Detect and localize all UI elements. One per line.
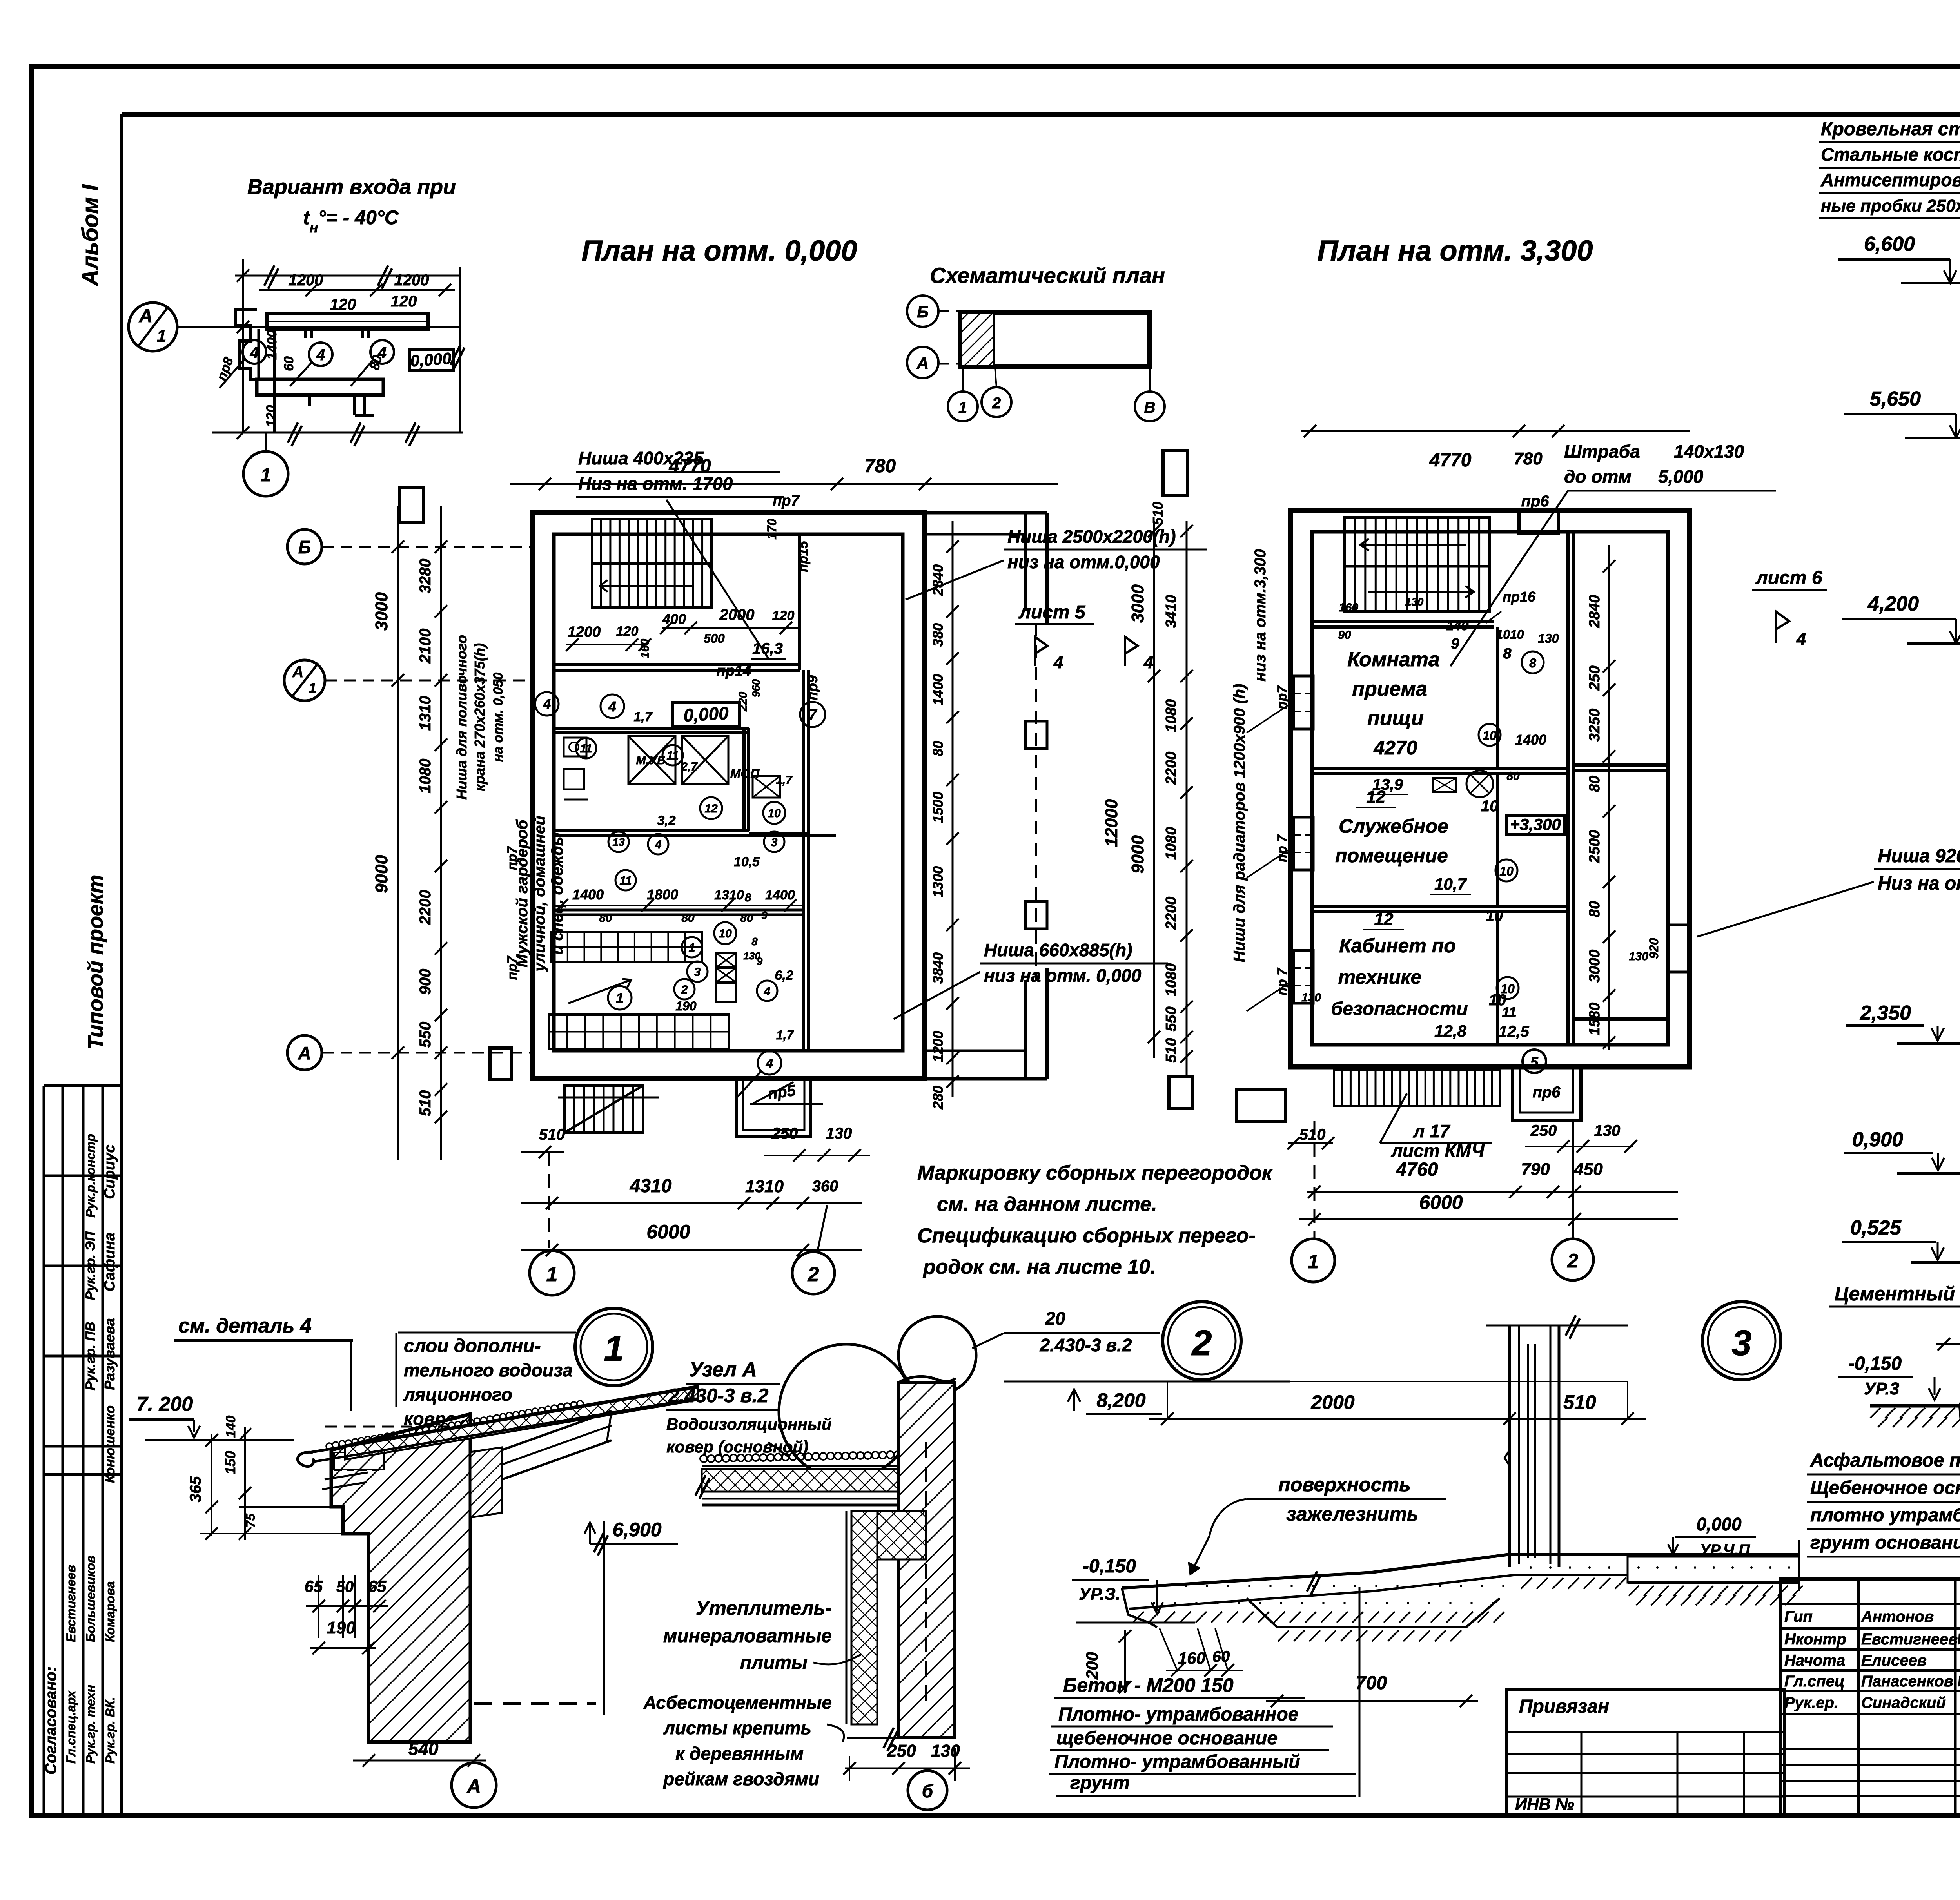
left plan bottom pier rect — [490, 1048, 512, 1079]
svg-text:5: 5 — [1530, 1054, 1539, 1070]
right plan bottom stair — [1334, 1070, 1500, 1106]
svg-text:220: 220 — [737, 692, 750, 712]
svg-text:4,200: 4,200 — [1867, 593, 1919, 615]
entry vestibule verticals — [258, 329, 260, 379]
svg-text:8: 8 — [1503, 645, 1512, 662]
left plan extension pilasters — [1025, 721, 1047, 749]
entry grid circle 1 — [265, 433, 267, 451]
svg-text:Типовой проект: Типовой проект — [84, 875, 107, 1050]
svg-text:2840: 2840 — [1586, 595, 1603, 629]
svg-text:Водоизоляционный: Водоизоляционный — [666, 1415, 831, 1433]
svg-text:10,7: 10,7 — [1434, 875, 1467, 893]
svg-text:пр7: пр7 — [505, 846, 520, 870]
svg-text:Плотно- утрамбованный: Плотно- утрамбованный — [1054, 1751, 1300, 1772]
svg-text:80: 80 — [1586, 901, 1603, 917]
svg-text:Спецификацию сборных перего-: Спецификацию сборных перего- — [917, 1224, 1256, 1247]
detail 1 dashed line right — [474, 1702, 596, 1705]
svg-text:250: 250 — [771, 1125, 798, 1142]
entry panel circle 4c — [370, 340, 394, 364]
svg-text:А: А — [139, 306, 153, 326]
entry lower wall — [257, 379, 383, 395]
svg-text:крана 270х260х375(h): крана 270х260х375(h) — [472, 643, 488, 791]
schematic circle 1 — [962, 367, 964, 392]
left plan entry stair bottom — [564, 1086, 643, 1133]
svg-text:Антисептированные деревян-: Антисептированные деревян- — [1820, 170, 1960, 190]
svg-text:А: А — [916, 354, 929, 372]
svg-text:к деревянным: к деревянным — [675, 1743, 804, 1764]
svg-text:см. на данном листе.: см. на данном листе. — [937, 1193, 1157, 1216]
svg-text:130: 130 — [826, 1125, 852, 1142]
svg-text:1: 1 — [157, 326, 166, 346]
svg-text:Нконтр: Нконтр — [1784, 1631, 1846, 1648]
svg-text:4: 4 — [766, 1056, 773, 1071]
svg-text:технике: технике — [1338, 966, 1422, 988]
svg-text:140: 140 — [1446, 618, 1469, 633]
left plan right dim chain rotated — [952, 521, 954, 1097]
svg-text:0,000: 0,000 — [683, 703, 729, 725]
detail 1 dim 540 — [353, 1760, 486, 1762]
svg-text:1: 1 — [604, 1329, 624, 1369]
detail 1 cornice dashed box — [334, 1452, 384, 1470]
svg-text:приема: приема — [1352, 678, 1427, 700]
svg-text:250: 250 — [1586, 665, 1603, 691]
left plan top dim 4770 780 — [510, 483, 1058, 485]
detail 1 left dims 365 150 140 — [211, 1434, 212, 1536]
svg-text:9000: 9000 — [372, 855, 391, 893]
svg-text:10: 10 — [1481, 798, 1499, 815]
svg-text:1: 1 — [309, 680, 316, 696]
grid line А/1 entry — [177, 326, 460, 328]
svg-text:уличной, домашней: уличной, домашней — [531, 816, 548, 972]
svg-text:Сафина: Сафина — [102, 1233, 118, 1291]
detail 1 asb layer under roof — [325, 1472, 368, 1479]
right plan bottom pier rects — [1169, 1076, 1192, 1108]
svg-text:1310: 1310 — [745, 1177, 784, 1196]
left plan left dim chain outer — [397, 506, 399, 1160]
svg-text:1,7: 1,7 — [776, 774, 793, 787]
detail 3 canopy post — [1508, 1325, 1511, 1567]
svg-text:+3,300: +3,300 — [1510, 815, 1561, 834]
detail 3 floor right — [1628, 1553, 1799, 1556]
svg-text:2: 2 — [808, 1263, 819, 1286]
svg-text:Альбом I: Альбом I — [78, 184, 103, 287]
svg-text:План на отм. 0,000: План на отм. 0,000 — [581, 234, 857, 267]
svg-text:Ниша 2500х2200(h): Ниша 2500х2200(h) — [1007, 526, 1176, 547]
svg-text:1080: 1080 — [417, 759, 434, 794]
svg-text:1400: 1400 — [572, 887, 604, 903]
svg-text:130: 130 — [1405, 596, 1424, 608]
svg-text:1580: 1580 — [1586, 1003, 1603, 1036]
svg-text:Б: Б — [298, 537, 311, 557]
svg-text:65: 65 — [368, 1577, 387, 1595]
svg-text:Щебеночное основание: Щебеночное основание — [1810, 1478, 1960, 1498]
svg-text:120: 120 — [391, 293, 417, 310]
svg-text:150: 150 — [222, 1451, 238, 1474]
svg-text:3840: 3840 — [930, 952, 946, 984]
svg-text:3: 3 — [694, 966, 701, 979]
svg-text:А: А — [292, 664, 304, 681]
svg-text:7. 200: 7. 200 — [136, 1393, 193, 1416]
right plan radiator niche 2 — [1294, 817, 1313, 870]
left plan bench band 1 — [551, 932, 702, 962]
svg-text:2: 2 — [681, 983, 688, 996]
svg-text:Рук.ер.: Рук.ер. — [1784, 1694, 1838, 1711]
svg-text:родок см. на листе 10.: родок см. на листе 10. — [922, 1256, 1156, 1278]
left plan wardrobe arrow — [568, 980, 631, 1003]
detail 1 wall with hatch — [331, 1414, 470, 1742]
svg-text:Гл.спец.арх: Гл.спец.арх — [64, 1690, 78, 1764]
svg-text:-0,150: -0,150 — [1848, 1353, 1902, 1374]
svg-text:10: 10 — [1486, 907, 1503, 925]
svg-text:130: 130 — [1629, 950, 1648, 963]
entry wall step profile — [235, 310, 257, 379]
svg-text:75: 75 — [243, 1513, 258, 1528]
svg-text:Стальные костыли через 780: Стальные костыли через 780 — [1821, 144, 1960, 165]
svg-text:90: 90 — [1338, 629, 1351, 642]
right plan grid circle 2 bottom — [1572, 1121, 1574, 1239]
svg-text:3000: 3000 — [1128, 584, 1147, 623]
svg-text:Цементный раствор: Цементный раствор — [1835, 1283, 1960, 1305]
svg-text:Привязан: Привязан — [1519, 1696, 1609, 1717]
svg-text:Ниши для радиаторов 1200х900 (: Ниши для радиаторов 1200х900 (h) — [1231, 684, 1248, 963]
schematic hatched bay — [961, 313, 994, 366]
svg-text:6,900: 6,900 — [612, 1519, 661, 1541]
entry bottom boundary — [212, 432, 463, 434]
svg-text:140х130: 140х130 — [1674, 441, 1744, 462]
svg-text:2500: 2500 — [1586, 830, 1603, 864]
svg-text:2: 2 — [1191, 1323, 1212, 1363]
svg-text:4: 4 — [1143, 653, 1153, 672]
svg-text:2840: 2840 — [930, 564, 946, 596]
svg-text:Кровельная сталь: Кровельная сталь — [1821, 119, 1960, 140]
detail 3 top line — [1167, 1381, 1628, 1382]
svg-text:МОП: МОП — [730, 767, 760, 781]
svg-text:960: 960 — [750, 679, 762, 697]
svg-text:низ на отм.3,300: низ на отм.3,300 — [1252, 549, 1269, 682]
svg-text:Рук.гр. ПВ: Рук.гр. ПВ — [83, 1322, 98, 1390]
svg-text:1200: 1200 — [930, 1031, 946, 1062]
svg-text:1080: 1080 — [1163, 963, 1180, 997]
svg-text:Б: Б — [917, 303, 929, 321]
svg-text:2.430-3 в.2: 2.430-3 в.2 — [1040, 1335, 1132, 1355]
svg-text:пр7: пр7 — [773, 493, 800, 509]
svg-text:2: 2 — [1567, 1250, 1578, 1272]
svg-text:ные пробки 250х120х65 через 78: ные пробки 250х120х65 через 780 — [1821, 196, 1960, 216]
svg-text:7: 7 — [808, 707, 817, 723]
svg-text:1080: 1080 — [1163, 827, 1180, 860]
svg-text:2: 2 — [992, 395, 1001, 412]
svg-text:4: 4 — [250, 344, 259, 361]
svg-text:280: 280 — [930, 1086, 946, 1110]
entry canopy top dim line — [235, 275, 460, 277]
svg-text:1: 1 — [958, 399, 967, 416]
svg-text:пр7: пр7 — [505, 955, 520, 980]
right plan grid circle 1 bottom — [1314, 1121, 1316, 1239]
svg-text:10: 10 — [1501, 982, 1515, 996]
svg-text:Низ на отм. 3,300: Низ на отм. 3,300 — [1878, 873, 1960, 894]
detail 3 dim 2000 510 — [1149, 1418, 1646, 1420]
right plan top dim 4770 780 — [1301, 430, 1690, 432]
svg-text:1400: 1400 — [265, 330, 279, 360]
svg-text:50: 50 — [336, 1578, 354, 1595]
svg-text:Комарова: Комарова — [103, 1581, 117, 1642]
detail 1 ceiling panel right of wall — [470, 1447, 502, 1517]
svg-text:слои дополни-: слои дополни- — [404, 1336, 541, 1356]
svg-text:0,900: 0,900 — [1852, 1128, 1903, 1151]
grid circle А/1 (entry variant) — [129, 303, 177, 351]
svg-text:1080: 1080 — [1163, 699, 1180, 732]
schematic grid circle А — [907, 347, 938, 378]
svg-text:см. деталь 4: см. деталь 4 — [178, 1314, 312, 1337]
svg-text:0,000: 0,000 — [410, 349, 452, 370]
inner frame left line — [120, 114, 123, 1815]
svg-text:Разуваева: Разуваева — [102, 1318, 118, 1390]
svg-text:Синадский: Синадский — [1861, 1694, 1946, 1711]
svg-text:0,000: 0,000 — [1696, 1514, 1742, 1534]
svg-text:12,8: 12,8 — [1434, 1022, 1466, 1040]
entry left vertical dim — [242, 259, 244, 433]
svg-text:1200: 1200 — [568, 624, 601, 640]
schematic plan rectangle — [960, 312, 1150, 367]
svg-text:4: 4 — [764, 985, 771, 998]
entry elevation box 0,000 — [410, 350, 454, 371]
left plan grid circle А — [287, 1035, 322, 1070]
svg-text:160: 160 — [639, 639, 652, 658]
svg-text:Рук.гр. ВК.: Рук.гр. ВК. — [103, 1697, 117, 1764]
svg-text:10: 10 — [1499, 864, 1514, 878]
left plan grid circle А/1 — [284, 660, 325, 701]
svg-text:60: 60 — [281, 356, 296, 371]
svg-text:9: 9 — [761, 909, 768, 921]
svg-text:9000: 9000 — [1128, 835, 1147, 874]
left plan interior dim row — [555, 905, 804, 906]
svg-text:360: 360 — [812, 1178, 838, 1195]
svg-text:Утеплитель-: Утеплитель- — [696, 1597, 832, 1619]
svg-text:12: 12 — [1374, 910, 1394, 929]
svg-text:130: 130 — [743, 950, 760, 962]
svg-text:3250: 3250 — [1586, 709, 1603, 742]
right plan corridor partition — [1566, 532, 1570, 1045]
signature table rows — [1780, 1603, 1960, 1605]
svg-text:13,9: 13,9 — [1372, 776, 1403, 793]
left plan top stair — [592, 519, 711, 607]
right plan circles — [1522, 651, 1544, 673]
svg-text:3000: 3000 — [372, 592, 391, 631]
right plan radiator niche 1 — [1294, 676, 1313, 729]
detail 2 elevation 8,200 — [1004, 1381, 1290, 1383]
detail 2 circle б — [908, 1771, 947, 1810]
left plan corridor vertical partition — [802, 670, 805, 1051]
detail 3 big circle 2 — [1163, 1302, 1241, 1380]
svg-text:1: 1 — [616, 990, 624, 1006]
svg-text:10: 10 — [719, 927, 732, 940]
svg-text:1400: 1400 — [1515, 732, 1546, 748]
left plan bottom dims row2 — [521, 1202, 862, 1204]
svg-text:510: 510 — [1163, 1038, 1180, 1062]
right plan left dim chain outer — [1153, 521, 1155, 1058]
left plan lower partition — [749, 832, 808, 835]
svg-text:Гл.спец: Гл.спец — [1784, 1673, 1845, 1690]
right plan partition 2 — [1312, 905, 1568, 908]
left plan room circles — [535, 692, 559, 716]
svg-text:3,2: 3,2 — [657, 813, 675, 828]
svg-text:1300: 1300 — [930, 866, 946, 897]
svg-text:ляционного: ляционного — [403, 1384, 512, 1405]
svg-text:8: 8 — [745, 891, 751, 904]
svg-text:1200: 1200 — [289, 272, 323, 289]
svg-text:1800: 1800 — [647, 887, 678, 903]
svg-text:130: 130 — [1594, 1122, 1621, 1139]
svg-text:безопасности: безопасности — [1331, 999, 1468, 1019]
detail 2 big blowup circle 2 — [898, 1316, 976, 1394]
svg-text:550: 550 — [1163, 1006, 1180, 1031]
svg-text:10: 10 — [768, 807, 781, 820]
svg-text:низ на отм. 0,000: низ на отм. 0,000 — [984, 965, 1142, 986]
svg-text:Узел А: Узел А — [689, 1358, 757, 1381]
detail 2 bottom edge — [847, 1737, 955, 1739]
svg-text:4770: 4770 — [1429, 450, 1472, 471]
svg-text:450: 450 — [1573, 1160, 1603, 1179]
svg-text:грунт основания: грунт основания — [1810, 1532, 1960, 1553]
svg-text:11: 11 — [666, 749, 679, 762]
svg-text:Рук.гр. техн: Рук.гр. техн — [83, 1685, 98, 1764]
svg-text:540: 540 — [408, 1739, 439, 1759]
svg-text:10: 10 — [1483, 729, 1497, 743]
right plan radiator niche 3 — [1294, 950, 1313, 1003]
svg-text:6000: 6000 — [1419, 1191, 1463, 1213]
svg-text:190: 190 — [327, 1618, 356, 1637]
right plan corridor rotated dims — [1608, 545, 1610, 1050]
svg-text:пр9: пр9 — [804, 675, 820, 700]
svg-text:120: 120 — [264, 405, 279, 428]
svg-text:2,7: 2,7 — [681, 760, 698, 773]
svg-text:4: 4 — [608, 698, 616, 714]
svg-text:4: 4 — [655, 838, 662, 851]
detail 1 big circle — [575, 1308, 653, 1386]
detail 3 left wedge — [1122, 1588, 1157, 1627]
svg-text:пищи: пищи — [1367, 707, 1424, 730]
svg-text:510: 510 — [417, 1090, 434, 1117]
svg-text:160: 160 — [1339, 601, 1358, 614]
svg-text:Елисеев: Елисеев — [1861, 1652, 1927, 1669]
svg-text:250: 250 — [1530, 1122, 1557, 1139]
svg-text:плотно утрамбованный: плотно утрамбованный — [1810, 1505, 1960, 1526]
svg-text:3: 3 — [1731, 1323, 1751, 1363]
svg-text:900: 900 — [417, 969, 434, 995]
left plan wc fixtures — [564, 738, 586, 756]
svg-text:на отм. 0,050: на отм. 0,050 — [491, 673, 506, 762]
svg-text:Схематический план: Схематический план — [930, 263, 1165, 288]
svg-text:4270: 4270 — [1373, 737, 1417, 759]
svg-text:3: 3 — [771, 836, 778, 849]
svg-text:1200: 1200 — [394, 272, 429, 289]
svg-text:510: 510 — [1563, 1391, 1596, 1413]
svg-text:2200: 2200 — [1163, 752, 1180, 785]
svg-text:13: 13 — [612, 836, 625, 848]
detail 1 callout слои дополнительного — [398, 1332, 576, 1334]
svg-text:Начота: Начота — [1784, 1652, 1845, 1669]
svg-text:низ на отм.0,000: низ на отм.0,000 — [1007, 552, 1160, 572]
svg-text:Асбестоцементные: Асбестоцементные — [643, 1692, 832, 1713]
svg-text:А: А — [298, 1043, 311, 1063]
svg-text:65: 65 — [305, 1577, 323, 1595]
svg-text:1310: 1310 — [714, 888, 744, 903]
svg-text:6,2: 6,2 — [775, 968, 793, 983]
svg-text:Кабинет по: Кабинет по — [1339, 935, 1456, 957]
svg-text:б: б — [922, 1781, 934, 1801]
svg-text:510: 510 — [539, 1126, 565, 1143]
svg-text:Ниша 400х235: Ниша 400х235 — [578, 448, 704, 468]
svg-text:лист 6: лист 6 — [1755, 567, 1822, 588]
svg-text:УР.З.: УР.З. — [1079, 1585, 1120, 1604]
svg-text:500: 500 — [704, 631, 725, 645]
svg-text:6000: 6000 — [646, 1221, 690, 1243]
detail 2 roof gravel — [700, 1455, 707, 1462]
svg-text:Рук.гр. ЭП: Рук.гр. ЭП — [83, 1231, 98, 1300]
right plan outer walls — [1290, 510, 1690, 1067]
svg-text:510: 510 — [1150, 502, 1166, 525]
detail 6 asphalt ramp — [1959, 1378, 1960, 1404]
svg-text:4: 4 — [1053, 653, 1063, 672]
svg-text:120: 120 — [330, 296, 356, 313]
left plan bottom dims row3 6000 — [521, 1249, 862, 1251]
svg-text:16,3: 16,3 — [752, 640, 783, 657]
detail 1 circle А — [452, 1763, 496, 1808]
svg-text:Бетон - М200 150: Бетон - М200 150 — [1063, 1674, 1234, 1696]
svg-text:В: В — [1144, 399, 1156, 416]
right plan stair wall — [1312, 620, 1494, 623]
right plan partition 1 — [1312, 767, 1568, 770]
svg-text:до отм: до отм — [1564, 466, 1632, 487]
svg-text:поверхность: поверхность — [1278, 1474, 1411, 1496]
schematic grid circle Б — [907, 296, 938, 327]
right plan niche 920 rect on wall — [1668, 925, 1690, 972]
svg-text:Евстигнеев: Евстигнеев — [64, 1565, 78, 1642]
svg-text:УР.Ч.П: УР.Ч.П — [1700, 1541, 1750, 1559]
svg-text:Ниша 660х885(h): Ниша 660х885(h) — [984, 940, 1132, 960]
detail 3 pit profile — [1247, 1598, 1277, 1627]
svg-text:2000: 2000 — [719, 606, 755, 624]
svg-text:380: 380 — [930, 623, 946, 647]
detail 2 big blowup circle 1 — [779, 1344, 914, 1479]
inner frame top line — [122, 112, 1960, 117]
schematic connector dashes — [939, 310, 960, 312]
svg-text:4: 4 — [316, 346, 325, 364]
svg-text:1: 1 — [689, 941, 695, 954]
svg-text:плиты: плиты — [740, 1652, 808, 1673]
svg-text:рейкам гвоздями: рейкам гвоздями — [662, 1769, 819, 1789]
svg-text:зажелезнить: зажелезнить — [1286, 1503, 1418, 1525]
svg-text:Штраба: Штраба — [1564, 441, 1640, 462]
left plan outer walls — [532, 513, 924, 1079]
svg-text:11: 11 — [619, 874, 632, 887]
detail 2 insulation strip — [851, 1511, 877, 1724]
svg-text:М.УБ: М.УБ — [636, 754, 666, 767]
detail 2 parapet wall hatch — [898, 1383, 955, 1738]
svg-text:-0,150: -0,150 — [1083, 1556, 1136, 1577]
svg-text:12: 12 — [704, 802, 718, 815]
svg-text:л 17: л 17 — [1413, 1121, 1451, 1141]
svg-text:лист КМЧ: лист КМЧ — [1391, 1140, 1485, 1161]
svg-text:8: 8 — [1529, 656, 1536, 670]
svg-text:780: 780 — [1514, 449, 1543, 468]
svg-text:1: 1 — [546, 1263, 558, 1286]
svg-text:Ниша для поливочного: Ниша для поливочного — [454, 635, 470, 800]
svg-text:А: А — [466, 1775, 481, 1797]
svg-text:Сириус: Сириус — [102, 1144, 118, 1199]
svg-text:1,7: 1,7 — [776, 1028, 795, 1042]
svg-text:80: 80 — [599, 912, 612, 925]
